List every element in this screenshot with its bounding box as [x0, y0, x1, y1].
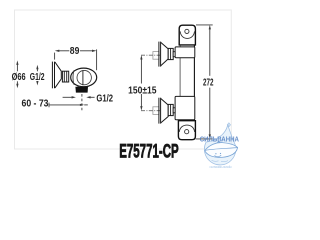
bar body — [180, 45, 194, 121]
escutcheon cone — [55, 62, 61, 88]
svg-text:272: 272 — [203, 78, 214, 89]
escutcheon flange base (double line) — [52, 62, 54, 89]
valve body ball — [71, 68, 97, 87]
bottom valve block — [175, 96, 195, 119]
bottom wall union: pipe into wall — [153, 107, 159, 115]
bottom cap — [178, 121, 195, 140]
drop marker dot — [227, 123, 230, 127]
dimension 272 — [196, 25, 213, 139]
svg-text:150±15: 150±15 — [128, 85, 157, 96]
connector hex nut — [62, 71, 68, 82]
outlet neck — [78, 86, 88, 87]
top nut — [168, 48, 175, 59]
dimension 60-73 — [49, 103, 88, 108]
outlet width arrows — [63, 96, 95, 98]
svg-text:E75771-CP: E75771-CP — [119, 142, 179, 163]
bottom escutcheon — [159, 98, 168, 124]
face — [215, 153, 216, 154]
svg-text:САНТЕХНИКА-ОНЛАЙН: САНТЕХНИКА-ОНЛАЙН — [210, 165, 232, 169]
svg-text:89: 89 — [70, 46, 80, 57]
dimension 150±15 — [140, 55, 142, 111]
svg-text:Ø66: Ø66 — [12, 72, 26, 83]
top escutcheon — [159, 42, 168, 67]
svg-text:60 - 73: 60 - 73 — [22, 99, 49, 110]
svg-text:G1/2: G1/2 — [96, 93, 113, 104]
bottom centerline — [141, 110, 160, 112]
bottom nut — [168, 104, 175, 115]
water drop — [204, 125, 235, 165]
dimension Ø66 — [16, 60, 18, 88]
svg-text:СИЛЬВАННА: СИЛЬВАННА — [200, 137, 239, 144]
top centerline — [141, 54, 160, 56]
outlet thread (black) — [75, 87, 88, 93]
outlet centerline dashed — [81, 94, 83, 110]
bathtub — [205, 143, 238, 158]
dimension 89 — [55, 49, 97, 70]
top wall union: pipe into wall — [153, 52, 159, 60]
svg-text:G1/2: G1/2 — [30, 72, 45, 83]
water ripples — [212, 159, 219, 162]
dimension G1/2 wall inlet — [36, 65, 38, 86]
border frame — [15, 10, 232, 149]
top cap — [179, 25, 195, 45]
top union block — [175, 47, 195, 58]
